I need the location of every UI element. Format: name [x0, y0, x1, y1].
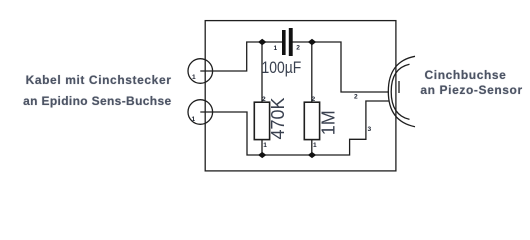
svg-text:470K: 470K [268, 97, 288, 139]
svg-text:2: 2 [312, 96, 316, 103]
svg-text:1: 1 [263, 142, 267, 149]
svg-text:1: 1 [313, 142, 317, 149]
svg-text:1: 1 [192, 116, 196, 123]
svg-text:2: 2 [262, 96, 266, 103]
svg-text:2: 2 [354, 94, 358, 101]
svg-text:100µF: 100µF [262, 59, 302, 78]
svg-text:2: 2 [296, 45, 300, 52]
svg-text:1: 1 [274, 45, 278, 52]
svg-text:3: 3 [368, 126, 372, 133]
svg-text:1M: 1M [319, 110, 339, 135]
svg-text:1: 1 [192, 74, 196, 81]
